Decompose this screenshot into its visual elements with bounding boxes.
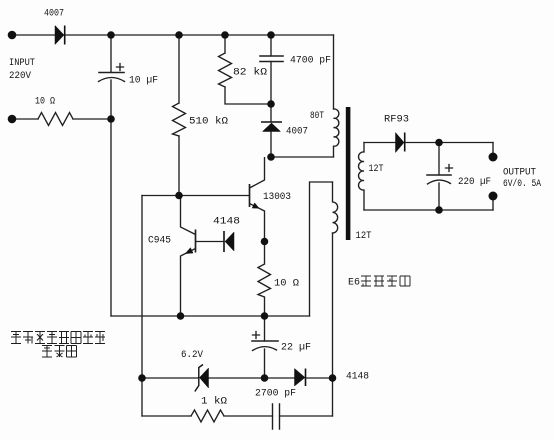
- resistor 10 ohm input: [38, 113, 73, 126]
- svg-text:RF93: RF93: [384, 115, 409, 126]
- label E6 core hanzi: [361, 276, 410, 286]
- wire top rail drop to 80T winding: [333, 35, 335, 109]
- wire 22uF branch: [264, 316, 266, 378]
- capacitor 2700pF plates: [273, 404, 280, 429]
- wire 220uF leads: [438, 143, 440, 211]
- wire base rail to 13003: [142, 195, 250, 197]
- svg-text:10 Ω: 10 Ω: [35, 97, 55, 108]
- resistor 82 k: [219, 53, 232, 87]
- transformer core: [346, 107, 351, 240]
- svg-text:510 kΩ: 510 kΩ: [189, 116, 228, 128]
- svg-text:12T: 12T: [369, 164, 384, 175]
- wire input lower lead right: [73, 118, 111, 120]
- capacitor 4700pF plates: [260, 56, 283, 62]
- svg-text:2700 pF: 2700 pF: [255, 389, 296, 400]
- diode RF93: [396, 133, 405, 153]
- svg-text:12T: 12T: [356, 231, 372, 242]
- label chinese title line2: [42, 346, 77, 358]
- svg-text:OUTPUT: OUTPUT: [503, 168, 536, 179]
- wire secondary top lead: [364, 142, 493, 144]
- node output plus terminal: [489, 153, 498, 162]
- transistor Q2 13003: [250, 157, 265, 211]
- wire bottom row: [142, 415, 333, 417]
- wire 82k branch: [225, 35, 271, 104]
- node collector junction: [267, 153, 275, 161]
- svg-text:220V: 220V: [9, 71, 31, 82]
- node 220uF top: [435, 139, 443, 147]
- diode 4007 snubber: [261, 122, 282, 132]
- node 220uF bottom: [435, 206, 443, 214]
- node snubber junction: [267, 100, 275, 108]
- winding 12T feedback: [333, 182, 338, 233]
- node C945 emitter rail: [177, 312, 185, 320]
- wire emitter bottom rail: [111, 315, 310, 317]
- wire left vertical through C1: [110, 35, 112, 316]
- wire 510k branch: [178, 35, 180, 196]
- svg-text:INPUT: INPUT: [9, 58, 35, 69]
- svg-text:4148: 4148: [213, 217, 240, 228]
- diode zener 6.2V: [195, 365, 209, 392]
- svg-text:220 µF: 220 µF: [458, 177, 491, 188]
- svg-text:C945: C945: [148, 236, 171, 247]
- capacitor 220uF plus: [446, 165, 453, 172]
- node 10ohm bottom rail: [261, 312, 269, 320]
- svg-text:6.2V: 6.2V: [181, 350, 203, 361]
- winding 12T secondary: [359, 143, 364, 211]
- svg-text:4007: 4007: [286, 127, 308, 138]
- wire feedback winding left lead: [310, 182, 333, 316]
- node 13003 emitter / 4148: [261, 238, 269, 246]
- node base junction 510k: [175, 192, 183, 200]
- node C1 bottom: [107, 115, 115, 123]
- node zener row left: [138, 374, 146, 382]
- wire input lower lead left: [12, 118, 38, 120]
- capacitor C1 10uF plates: [99, 72, 124, 74]
- node zener row 22uF: [261, 374, 269, 382]
- wire snubber diode leads: [270, 104, 272, 157]
- svg-text:4148: 4148: [346, 372, 369, 383]
- capacitor C1 plus: [117, 64, 124, 71]
- wire output plus stub: [492, 143, 494, 158]
- svg-text:82 kΩ: 82 kΩ: [233, 67, 267, 79]
- node zener row right: [329, 374, 337, 382]
- svg-text:13003: 13003: [263, 192, 291, 203]
- wire 4700pF branch: [270, 35, 272, 104]
- label chinese title line1: [11, 332, 105, 344]
- wire zener row: [142, 377, 333, 379]
- resistor 1 k: [191, 410, 224, 422]
- diode 4007 top-left: [55, 26, 65, 45]
- capacitor 220uF plates: [427, 174, 451, 176]
- node top rail / C1: [107, 31, 115, 39]
- wire secondary bottom lead: [364, 209, 493, 211]
- node top rail / 4700pF: [267, 31, 275, 39]
- wire top rail: [12, 34, 334, 36]
- diode 4148 base: [224, 231, 234, 252]
- resistor 510 k: [173, 103, 186, 136]
- transistor Q2 emitter arrow: [252, 203, 260, 209]
- svg-text:80T: 80T: [310, 111, 324, 122]
- capacitor 22uF plates: [252, 340, 278, 342]
- svg-text:22 µF: 22 µF: [281, 343, 311, 354]
- svg-text:E6: E6: [348, 278, 360, 289]
- wire collector rail: [271, 156, 334, 158]
- node input bottom terminal: [8, 115, 17, 124]
- svg-text:4700 pF: 4700 pF: [290, 56, 331, 67]
- svg-text:10 µF: 10 µF: [129, 76, 158, 87]
- node input top terminal: [8, 31, 17, 40]
- capacitor 22uF plus: [253, 332, 260, 339]
- wire left loop vertical: [141, 196, 143, 417]
- svg-text:4007: 4007: [44, 9, 64, 20]
- resistor 10 ohm emitter: [258, 211, 271, 316]
- winding 80T primary: [334, 109, 339, 157]
- node top rail / 510k: [175, 31, 183, 39]
- node top rail / 82k: [221, 31, 229, 39]
- svg-text:6V/0. 5A: 6V/0. 5A: [503, 178, 541, 190]
- transistor Q1 emitter arrow: [185, 247, 194, 254]
- wire output minus stub: [492, 196, 494, 210]
- transistor Q1 C945: [181, 196, 225, 317]
- svg-text:1 kΩ: 1 kΩ: [201, 396, 227, 408]
- svg-text:10 Ω: 10 Ω: [274, 279, 299, 290]
- wire feedback winding right lead: [332, 233, 334, 416]
- diode 4148 bottom: [295, 369, 306, 387]
- node output minus terminal: [489, 192, 498, 201]
